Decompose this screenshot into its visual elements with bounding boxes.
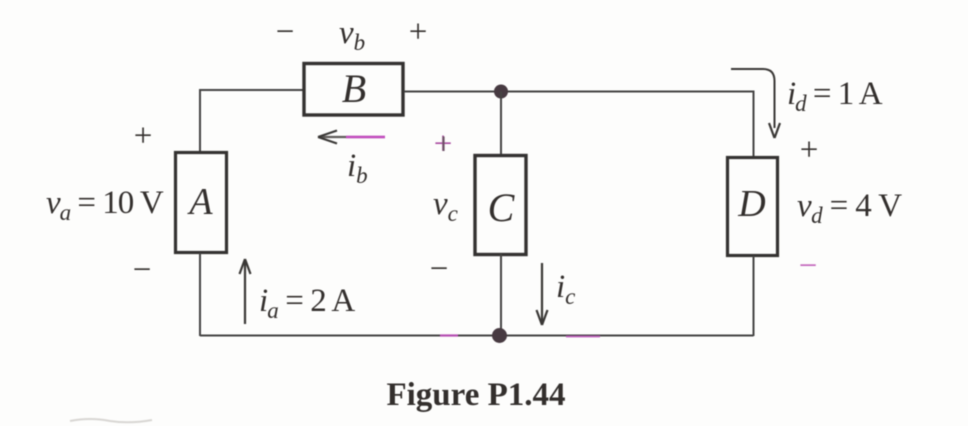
wire: horizontal from element B right terminal to corner above element D <box>404 91 754 93</box>
label A <box>186 181 213 223</box>
label B <box>342 66 366 111</box>
wire: bottom rail from A to D <box>200 335 754 337</box>
label: plus sign of v_c (above C, magenta) <box>434 126 453 162</box>
label: v_b <box>339 15 365 55</box>
label D <box>737 183 765 225</box>
label: minus sign of v_a (below A) <box>133 252 152 288</box>
svg-text:−: − <box>276 14 295 50</box>
wire: top-left horizontal from A riser to element B left terminal <box>199 89 303 91</box>
label: i_a = 2 A <box>259 283 355 323</box>
wire: riser from bottom rail up to element D bottom <box>753 256 755 336</box>
label i_b <box>347 148 368 188</box>
label: minus sign of v_c (below C) <box>430 251 449 287</box>
svg-text:id = 1 A: id = 1 A <box>787 76 883 116</box>
label i_c <box>556 269 575 309</box>
svg-text:+: + <box>134 118 153 154</box>
svg-text:+: + <box>800 132 819 168</box>
svg-text:ia = 2 A: ia = 2 A <box>259 283 355 323</box>
label: v_a = 10 V <box>46 185 164 225</box>
svg-text:+: + <box>409 14 428 50</box>
svg-text:vc: vc <box>433 186 458 226</box>
svg-text:ic: ic <box>556 269 575 309</box>
caption: Figure P1.44 <box>386 377 565 413</box>
label: minus sign of v_b (left of B) <box>276 14 295 50</box>
svg-text:vb: vb <box>339 15 365 55</box>
arrow: i_b current arrow (points left, magenta shaft) <box>318 131 385 144</box>
label: plus sign of v_a (above A) <box>134 118 153 154</box>
label: v_c <box>433 186 458 226</box>
label: plus sign of v_d (above D right) <box>800 132 819 168</box>
svg-text:Figure P1.44: Figure P1.44 <box>386 377 565 413</box>
label: v_d = 4 V <box>797 188 902 228</box>
label: plus sign of v_b (right of B) <box>409 14 428 50</box>
wire: riser from top junction down to element C top <box>500 92 502 157</box>
svg-text:ib: ib <box>347 148 368 188</box>
arrow: i_c current arrow (points down) <box>537 263 548 325</box>
svg-text:C: C <box>488 185 516 230</box>
node: top junction dot (B/C/D net) <box>494 85 508 99</box>
svg-text:va = 10 V: va = 10 V <box>46 185 164 225</box>
node: bottom junction dot (C bottom net) <box>492 328 507 343</box>
svg-text:D: D <box>737 183 765 225</box>
label: i_d = 1 A <box>787 76 883 116</box>
wire: riser from element A bottom to bottom rail <box>199 253 201 336</box>
element D (box) <box>728 158 778 256</box>
wire: riser from top-right corner down to element D top <box>753 91 755 159</box>
wire: magenta tinge on bottom rail right of junction <box>566 336 600 338</box>
arrow: i_a current arrow (points up) <box>240 259 251 324</box>
arrow: i_d current arrow (hook curving down into D) <box>731 69 780 138</box>
svg-text:−: − <box>430 251 449 287</box>
element A (box) <box>176 153 227 253</box>
svg-text:B: B <box>342 66 366 111</box>
wire: top riser from element A to top-left horizontal <box>199 90 201 152</box>
svg-text:−: − <box>799 248 818 284</box>
stray faint pencil smudge bottom-left <box>70 419 152 422</box>
label C <box>488 185 516 230</box>
element B (box) <box>304 64 403 116</box>
wire: magenta tinge on bottom rail left of junction <box>440 334 458 336</box>
svg-text:−: − <box>133 252 152 288</box>
element C (box) <box>475 156 526 255</box>
wire: riser from element C bottom to bottom junction <box>500 254 502 336</box>
svg-text:A: A <box>186 181 213 223</box>
label: minus sign of v_d (below D, magenta) <box>799 248 818 284</box>
svg-text:vd = 4 V: vd = 4 V <box>797 188 902 228</box>
